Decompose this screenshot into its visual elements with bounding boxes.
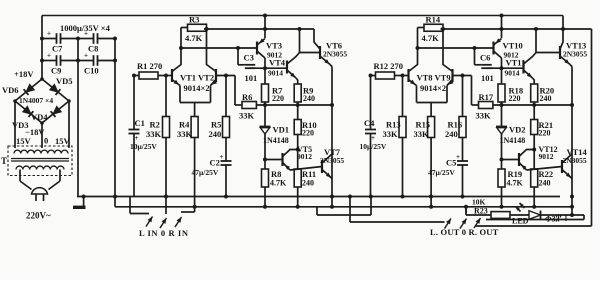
svg-text:4.7K: 4.7K [185,33,203,43]
svg-text:33K: 33K [146,129,162,139]
svg-text:0: 0 [44,136,48,146]
svg-text:15V: 15V [16,136,32,146]
svg-text:220: 220 [509,94,521,103]
svg-text:C9: C9 [51,66,61,76]
svg-text:+: + [84,52,88,60]
svg-text:VT3: VT3 [266,41,282,51]
svg-text:C5: C5 [446,158,456,168]
svg-text:VD6: VD6 [2,85,19,95]
svg-text:101: 101 [245,73,258,83]
svg-text:9014: 9014 [505,69,520,78]
svg-text:101: 101 [481,73,494,83]
svg-text:240: 240 [303,94,315,103]
svg-text:C8: C8 [88,44,98,54]
svg-text:R5: R5 [211,120,221,130]
svg-text:R17: R17 [479,92,494,102]
svg-text:R2: R2 [150,120,160,130]
svg-text:2N3055: 2N3055 [563,50,587,59]
svg-text:C2: C2 [210,158,220,168]
svg-text:33K: 33K [476,111,492,121]
svg-text:VD1: VD1 [273,125,290,135]
svg-text:+: + [47,30,51,38]
svg-text:33K: 33K [383,129,399,139]
svg-text:VT11: VT11 [506,58,526,68]
svg-text:Φ3: Φ3 [545,215,556,224]
svg-text:C4: C4 [364,118,375,128]
svg-text:R19: R19 [508,169,523,179]
svg-text:9012: 9012 [539,152,554,161]
svg-text:220V~: 220V~ [26,211,51,221]
svg-text:C7: C7 [52,44,63,54]
svg-text:VD2: VD2 [509,125,526,135]
svg-text:R6: R6 [242,92,252,102]
svg-text:L. OUT 0 R. OUT: L. OUT 0 R. OUT [430,227,499,237]
svg-text:R14: R14 [426,15,441,25]
svg-text:9014×2: 9014×2 [420,83,446,93]
svg-text:1N4148: 1N4148 [263,136,289,145]
svg-text:4.7K: 4.7K [270,179,287,188]
svg-text:+: + [84,30,88,38]
svg-text:LED: LED [512,217,529,226]
svg-text:R15: R15 [416,120,431,130]
svg-text:2N3055: 2N3055 [563,156,587,165]
svg-text:R8: R8 [271,169,281,179]
svg-text:L IN 0 R IN: L IN 0 R IN [139,228,189,238]
svg-text:47μ/25V: 47μ/25V [192,168,219,177]
svg-text:240: 240 [209,129,222,139]
svg-text:33K: 33K [177,129,193,139]
svg-text:R3: R3 [189,15,199,25]
svg-text:9012: 9012 [297,152,312,161]
svg-text:+: + [371,134,375,142]
svg-text:10K: 10K [472,198,486,207]
svg-text:33K: 33K [414,129,430,139]
svg-text:VD4: VD4 [31,112,48,122]
svg-text:240: 240 [540,94,552,103]
svg-text:220: 220 [539,129,551,138]
svg-text:4.7K: 4.7K [422,33,440,43]
svg-text:C1: C1 [135,118,145,128]
svg-text:C6: C6 [480,53,490,63]
svg-text:VD5: VD5 [56,76,73,86]
svg-text:33K: 33K [239,111,255,121]
svg-text:+: + [135,134,139,142]
svg-text:R11: R11 [302,169,316,179]
svg-text:R1 270: R1 270 [137,61,162,71]
svg-text:9014×2: 9014×2 [184,83,210,93]
svg-text:9014: 9014 [268,69,283,78]
svg-text:R13: R13 [386,120,401,130]
svg-text:1N4148: 1N4148 [500,136,526,145]
svg-text:2N3055: 2N3055 [320,156,344,165]
svg-text:47μ/25V: 47μ/25V [428,168,455,177]
svg-text:4.7K: 4.7K [507,179,524,188]
svg-text:+: + [220,153,224,161]
svg-text:1N4007 ×4: 1N4007 ×4 [19,96,53,105]
svg-text:VT10: VT10 [503,41,523,51]
svg-text:+: + [47,52,51,60]
svg-text:2N3055: 2N3055 [323,50,347,59]
svg-text:T: T [1,156,7,166]
svg-text:15V: 15V [55,136,71,146]
svg-text:240: 240 [445,129,458,139]
svg-text:240: 240 [302,179,314,188]
svg-text:220: 220 [272,94,284,103]
svg-text:10μ/25V: 10μ/25V [130,142,157,151]
svg-text:VT4: VT4 [269,58,286,68]
svg-text:220: 220 [302,129,314,138]
svg-text:R23: R23 [474,207,488,216]
svg-text:240: 240 [539,179,551,188]
svg-text:C10: C10 [84,66,99,76]
svg-text:R16: R16 [448,120,463,130]
svg-text:VT1 VT2: VT1 VT2 [180,73,214,83]
svg-text:C3: C3 [244,53,254,63]
svg-text:R22: R22 [539,169,554,179]
svg-text:+18V: +18V [14,69,34,79]
svg-text:10μ/25V: 10μ/25V [360,142,387,151]
svg-text:R12 270: R12 270 [374,61,404,71]
svg-text:VT8 VT9: VT8 VT9 [417,73,451,83]
svg-text:+: + [456,153,460,161]
svg-text:R4: R4 [179,120,190,130]
